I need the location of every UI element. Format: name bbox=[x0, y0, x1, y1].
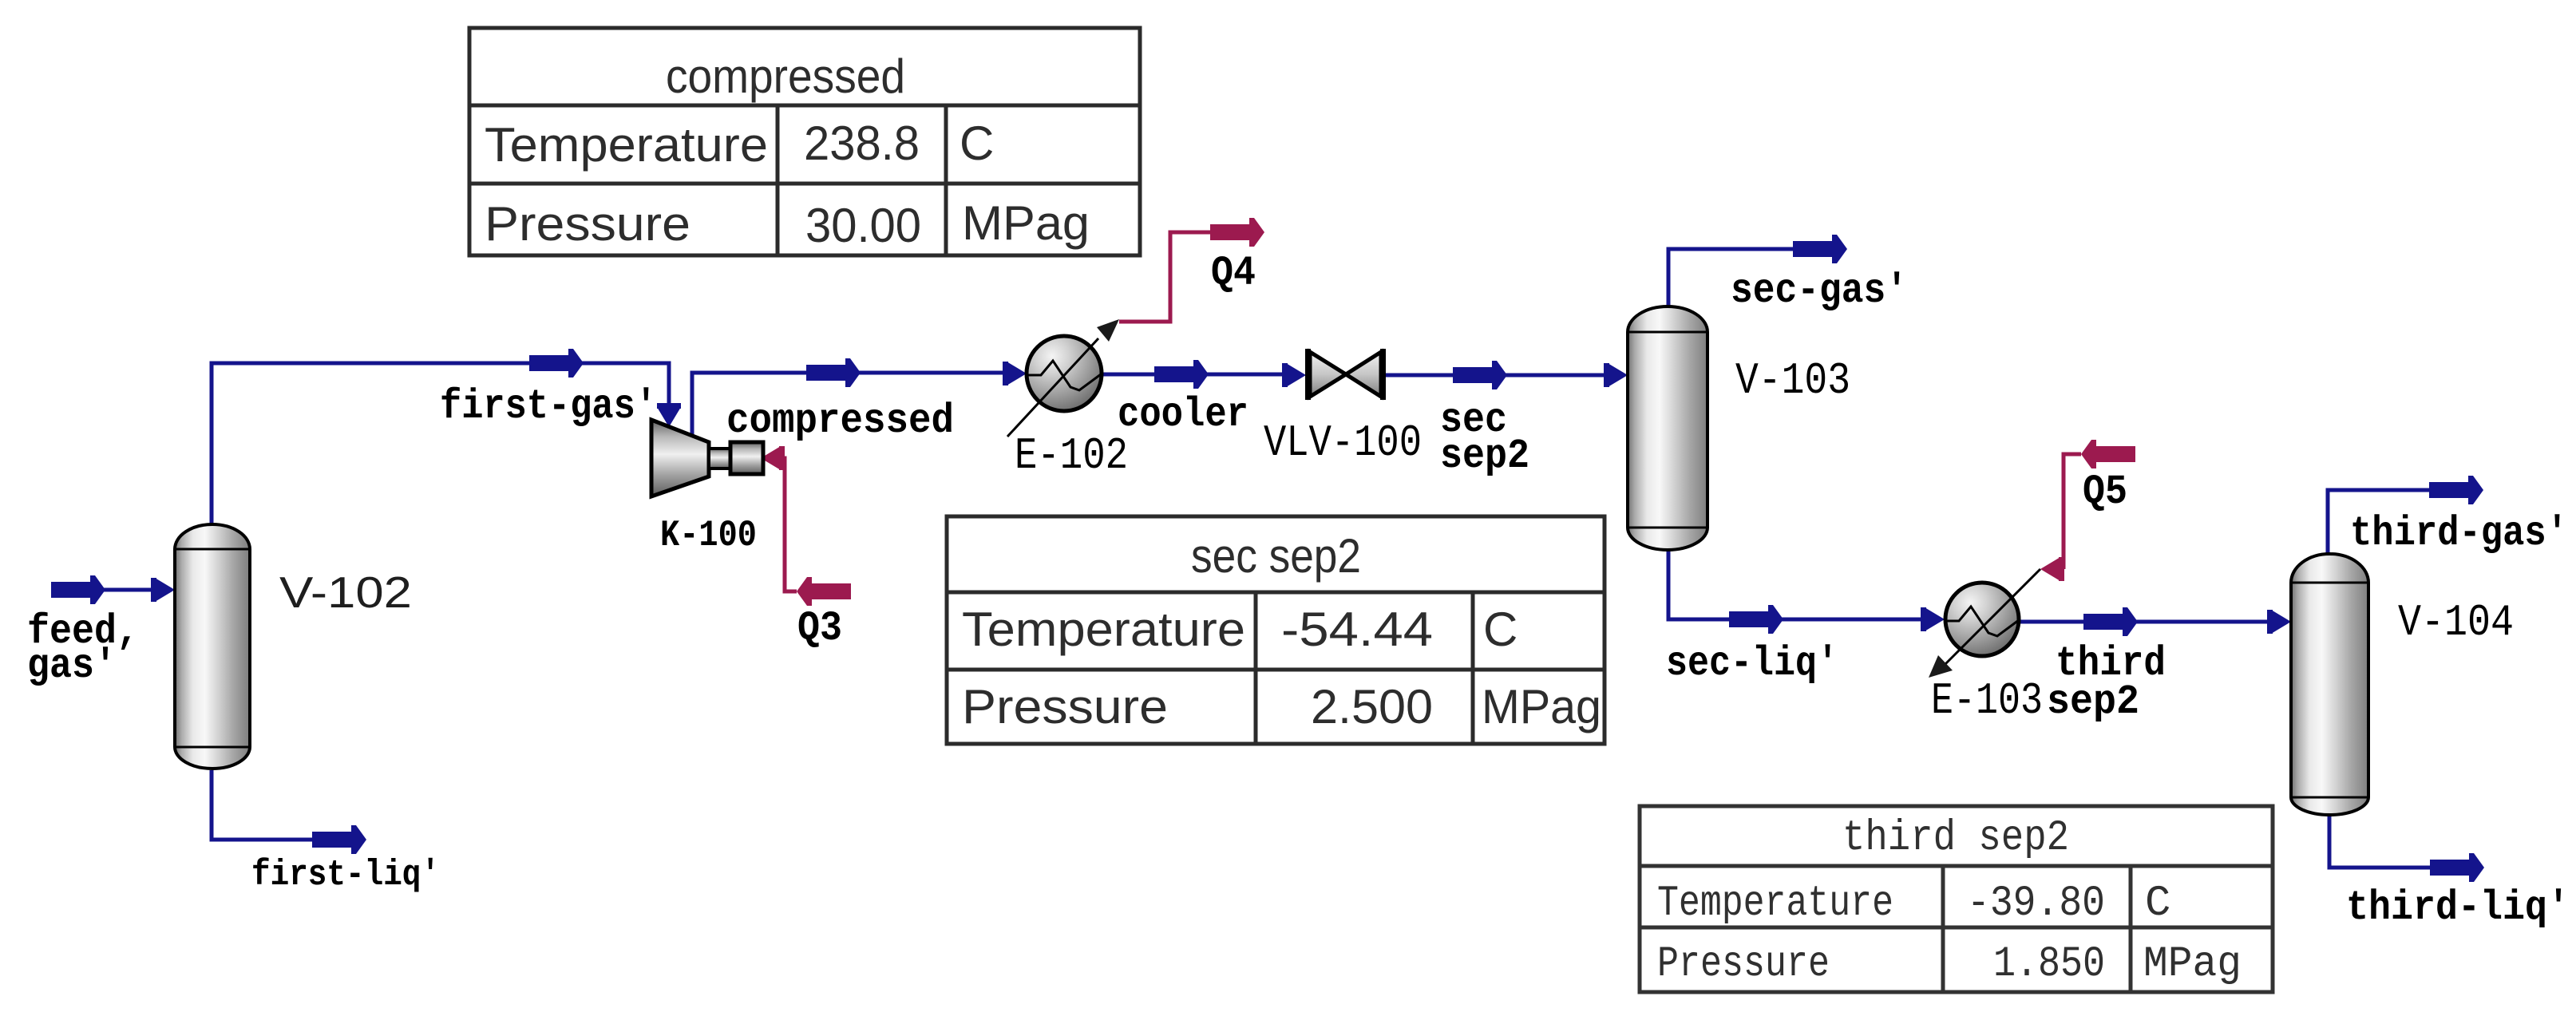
arrow first-gas bbox=[529, 349, 584, 378]
wire sec-liq: V-103 bottom to E-103 bbox=[1668, 548, 1924, 619]
wire first-gas: V-102 top up and right to K-100 inlet bbox=[212, 363, 669, 527]
arrow first-liq bbox=[312, 825, 366, 854]
svg-text:E-102: E-102 bbox=[1015, 430, 1128, 481]
arrow Q4 thick (points right) bbox=[1210, 218, 1264, 247]
arrowhead into VLV-100 bbox=[1282, 363, 1306, 387]
svg-text:MPag: MPag bbox=[2143, 940, 2242, 989]
svg-text:Temperature: Temperature bbox=[485, 118, 768, 172]
wire third-gas: V-104 top bbox=[2328, 490, 2429, 555]
svg-text:third-liq': third-liq' bbox=[2346, 884, 2570, 931]
svg-text:MPag: MPag bbox=[1482, 680, 1601, 733]
svg-text:C: C bbox=[1483, 603, 1518, 656]
svg-text:Pressure: Pressure bbox=[1657, 940, 1830, 989]
svg-text:Q5: Q5 bbox=[2083, 468, 2127, 516]
arrowhead into K-100 (down) bbox=[657, 403, 681, 427]
wire feed gas into V-102 bbox=[104, 588, 156, 592]
arrow third-gas bbox=[2429, 476, 2483, 504]
arrow third-liq bbox=[2430, 853, 2484, 882]
arrowhead into V-102 bbox=[151, 578, 175, 602]
arrow sec-liq bbox=[1729, 605, 1783, 634]
wire sec-gas: V-103 top bbox=[1668, 249, 1793, 308]
svg-text:-54.44: -54.44 bbox=[1281, 603, 1433, 656]
svg-text:Pressure: Pressure bbox=[485, 197, 690, 251]
svg-text:-39.80: -39.80 bbox=[1967, 880, 2105, 928]
svg-text:2.500: 2.500 bbox=[1311, 680, 1433, 733]
wire third-liq: V-104 bottom bbox=[2329, 813, 2430, 868]
arrowhead into E-103 bbox=[1921, 607, 1945, 631]
svg-text:Pressure: Pressure bbox=[962, 680, 1168, 733]
svg-text:V-104: V-104 bbox=[2398, 597, 2514, 648]
svg-text:C: C bbox=[960, 117, 994, 170]
arrow Q3 thick bbox=[797, 577, 851, 606]
arrow sec-gas bbox=[1793, 235, 1847, 263]
svg-text:compressed: compressed bbox=[726, 397, 954, 445]
arrow Q5 thick bbox=[2081, 440, 2135, 468]
wire first-liq: V-102 bottom bbox=[212, 770, 312, 840]
wire Q4 bbox=[1119, 232, 1210, 322]
wire compressed: K-100 outlet up and right to E-102 bbox=[692, 373, 1007, 437]
arrowhead Q3 into K-100 coupling bbox=[761, 446, 785, 470]
wire third sep2: E-103 to V-104 bbox=[2019, 620, 2272, 624]
svg-text:C: C bbox=[2145, 880, 2170, 928]
svg-text:V-102: V-102 bbox=[279, 567, 412, 617]
arrow feed gas bbox=[51, 575, 105, 604]
arrowhead into V-104 bbox=[2267, 610, 2291, 634]
wire Q5 bbox=[2064, 454, 2081, 569]
arrowhead into E-102 bbox=[1003, 362, 1027, 385]
wire sec sep2: VLV-100 to V-103 bbox=[1385, 374, 1609, 378]
svg-text:sep2: sep2 bbox=[1440, 433, 1529, 480]
svg-text:1.850: 1.850 bbox=[1993, 940, 2105, 989]
svg-text:gas': gas' bbox=[27, 642, 117, 690]
wire Q3 bbox=[783, 458, 797, 591]
svg-text:Q4: Q4 bbox=[1211, 250, 1256, 297]
arrowhead into V-103 bbox=[1604, 363, 1628, 387]
svg-text:30.00: 30.00 bbox=[805, 199, 921, 252]
svg-text:E-103: E-103 bbox=[1931, 675, 2043, 726]
svg-text:MPag: MPag bbox=[962, 196, 1090, 250]
svg-text:sec-liq': sec-liq' bbox=[1666, 640, 1838, 687]
svg-text:first-gas': first-gas' bbox=[440, 383, 657, 430]
svg-text:first-liq': first-liq' bbox=[251, 855, 440, 895]
svg-text:Temperature: Temperature bbox=[1657, 880, 1893, 928]
arrow sec sep2 bbox=[1453, 361, 1507, 389]
svg-text:sep2: sep2 bbox=[2047, 678, 2139, 725]
svg-text:Q3: Q3 bbox=[797, 605, 842, 652]
svg-text:sec sep2: sec sep2 bbox=[1191, 529, 1361, 583]
svg-text:compressed: compressed bbox=[666, 49, 905, 103]
svg-text:cooler: cooler bbox=[1118, 391, 1248, 438]
arrow compressed bbox=[806, 358, 861, 387]
svg-text:third sep2: third sep2 bbox=[1842, 814, 2069, 863]
svg-text:V-103: V-103 bbox=[1735, 355, 1850, 406]
svg-text:sec-gas': sec-gas' bbox=[1731, 267, 1908, 314]
arrow cooler bbox=[1154, 360, 1209, 389]
svg-text:Temperature: Temperature bbox=[962, 603, 1245, 656]
wire cooler: E-102 to VLV-100 bbox=[1101, 373, 1288, 377]
svg-text:238.8: 238.8 bbox=[804, 117, 920, 170]
svg-text:K-100: K-100 bbox=[660, 515, 757, 556]
svg-text:third-gas': third-gas' bbox=[2350, 510, 2568, 557]
arrow third sep2 bbox=[2083, 607, 2138, 636]
svg-text:VLV-100: VLV-100 bbox=[1264, 417, 1422, 468]
